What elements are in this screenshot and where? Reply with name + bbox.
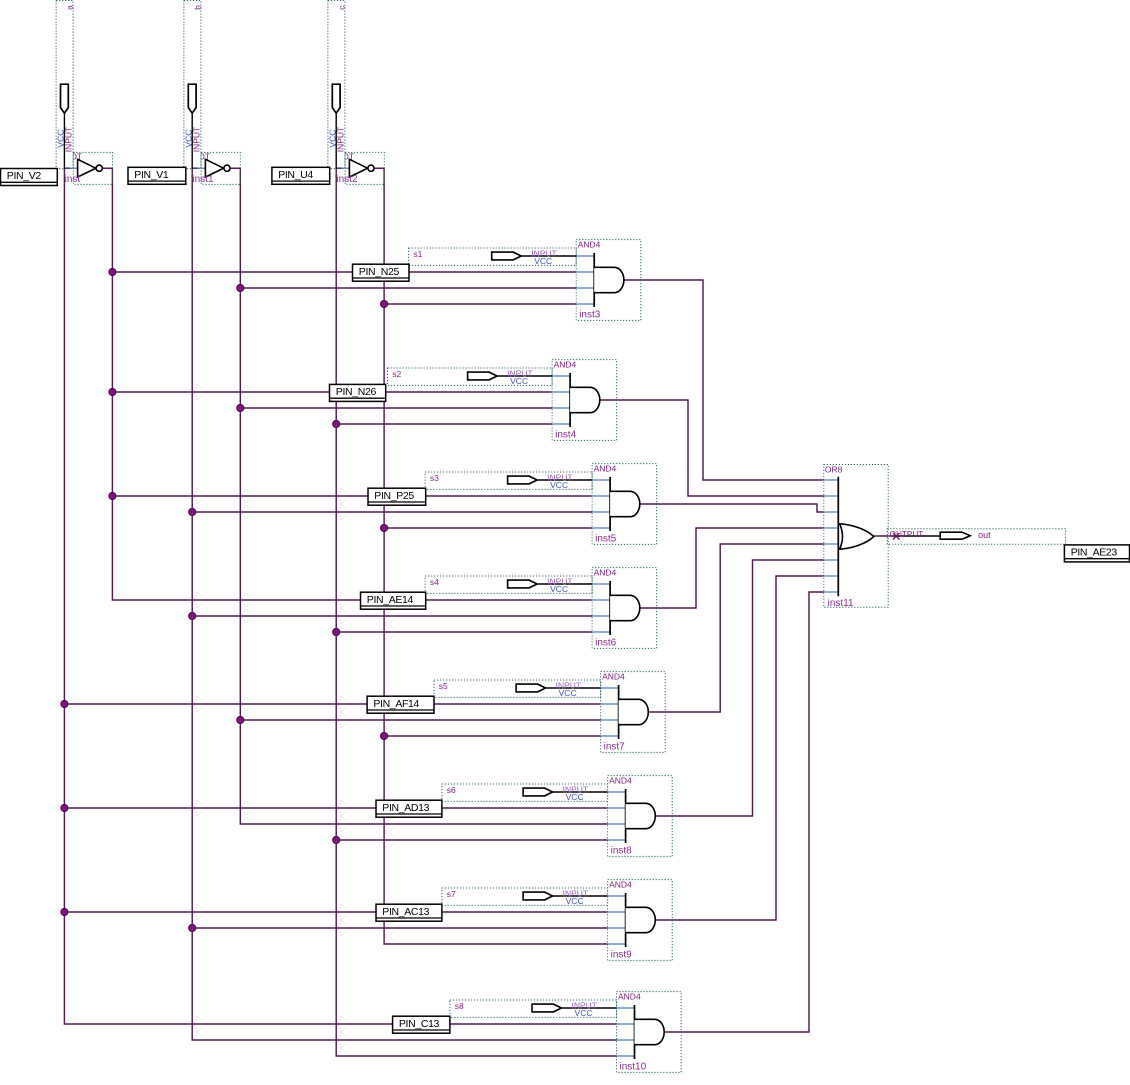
svg-text:s2: s2 bbox=[392, 369, 401, 379]
svg-text:PIN_AF14: PIN_AF14 bbox=[373, 698, 419, 710]
wire row2 y392 bbox=[112, 391, 552, 393]
wire net c vertical bbox=[336, 168, 616, 1056]
svg-text:PIN_C13: PIN_C13 bbox=[399, 1018, 440, 1030]
wire inst9 out to OR8 in7 bbox=[655, 576, 824, 920]
AND gate inst6 (AND4) bbox=[592, 567, 657, 648]
svg-text:VCC: VCC bbox=[566, 792, 584, 802]
svg-text:s7: s7 bbox=[447, 889, 456, 899]
wire row7 y928 bbox=[192, 927, 607, 929]
wire row5 y704 bbox=[64, 703, 600, 705]
svg-text:VCC: VCC bbox=[550, 480, 568, 490]
svg-text:b: b bbox=[192, 5, 202, 10]
svg-text:INPUT: INPUT bbox=[191, 127, 201, 153]
svg-text:AND4: AND4 bbox=[594, 567, 617, 577]
wire row3 y528 bbox=[384, 527, 592, 529]
svg-text:inst5: inst5 bbox=[595, 534, 617, 545]
wire inverter inst output vertical bbox=[102, 168, 592, 600]
wire inst3 out to OR8 in1 bbox=[624, 280, 824, 480]
junction dot (192.2,512) bbox=[189, 509, 196, 516]
wire OR8 output bbox=[874, 535, 894, 537]
pin location label PIN_AC13 bbox=[376, 904, 442, 921]
pin location label PIN_AE14 bbox=[361, 592, 426, 609]
input s3 (VCC) bbox=[425, 472, 592, 490]
svg-text:inst10: inst10 bbox=[620, 1062, 647, 1073]
output pin out (OUTPUT) bbox=[887, 529, 1065, 544]
svg-text:inst9: inst9 bbox=[611, 950, 633, 961]
svg-text:AND4: AND4 bbox=[609, 879, 632, 889]
wire row1 y288 bbox=[240, 287, 576, 289]
svg-text:s1: s1 bbox=[413, 249, 422, 259]
svg-text:VCC: VCC bbox=[575, 1008, 593, 1018]
wire row4 y632 bbox=[336, 631, 592, 633]
svg-text:PIN_AE23: PIN_AE23 bbox=[1071, 547, 1118, 559]
pin location label PIN_N26 bbox=[330, 384, 386, 401]
svg-text:s3: s3 bbox=[430, 473, 439, 483]
wire row3 y512 bbox=[192, 511, 592, 513]
junction dot (336.2,424) bbox=[333, 421, 340, 428]
wire row5 y736 bbox=[384, 735, 600, 737]
inverter inst2 (NOT) bbox=[336, 152, 384, 185]
wire row7 y912 bbox=[64, 911, 607, 913]
svg-text:inst: inst bbox=[65, 174, 81, 185]
svg-text:out: out bbox=[978, 530, 991, 540]
pin location label PIN_AE23 bbox=[1064, 545, 1129, 562]
svg-text:PIN_AC13: PIN_AC13 bbox=[382, 906, 429, 918]
pin location label PIN_V2 bbox=[1, 169, 58, 186]
OR gate inst11 (OR8) bbox=[824, 465, 888, 610]
wire inverter inst2 output vertical bbox=[374, 168, 607, 944]
wire row1 y272 bbox=[112, 271, 576, 273]
svg-text:s4: s4 bbox=[430, 577, 439, 587]
pin location label PIN_U4 bbox=[272, 167, 330, 184]
AND gate inst7 (AND4) bbox=[601, 671, 666, 752]
pin location label PIN_C13 bbox=[393, 1016, 450, 1033]
svg-text:inst7: inst7 bbox=[604, 742, 626, 753]
junction dot (112.4,272) bbox=[109, 269, 116, 276]
inverter inst1 (NOT) bbox=[192, 152, 240, 185]
svg-text:inst8: inst8 bbox=[611, 846, 633, 857]
wire row6 y840 bbox=[336, 839, 607, 841]
junction dot (384.1,736) bbox=[381, 733, 388, 740]
wire row4 y616 bbox=[192, 615, 592, 617]
junction dot (64.4,912) bbox=[61, 909, 68, 916]
junction dot (240.3,720) bbox=[237, 717, 244, 724]
junction dot (112.4,392) bbox=[109, 389, 116, 396]
input s5 (VCC) bbox=[434, 680, 601, 698]
AND gate inst9 (AND4) bbox=[608, 879, 673, 960]
svg-text:VCC: VCC bbox=[534, 256, 552, 266]
svg-text:inst11: inst11 bbox=[828, 598, 854, 609]
svg-text:s6: s6 bbox=[447, 785, 456, 795]
AND gate inst10 (AND4) bbox=[617, 991, 682, 1072]
svg-text:PIN_V2: PIN_V2 bbox=[7, 170, 42, 182]
inverter inst (NOT) bbox=[64, 152, 112, 185]
pin location label PIN_AF14 bbox=[367, 696, 434, 713]
svg-text:VCC: VCC bbox=[550, 584, 568, 594]
svg-text:INPUT: INPUT bbox=[335, 127, 345, 153]
junction dot (240.3,288) bbox=[237, 285, 244, 292]
svg-text:AND4: AND4 bbox=[594, 463, 617, 473]
wire NOT inst input tap bbox=[64, 167, 70, 169]
svg-text:PIN_U4: PIN_U4 bbox=[278, 169, 313, 181]
svg-text:inst3: inst3 bbox=[579, 310, 601, 321]
pin location label PIN_N25 bbox=[353, 264, 410, 281]
svg-text:PIN_AD13: PIN_AD13 bbox=[382, 802, 429, 814]
svg-text:a: a bbox=[65, 5, 75, 10]
wire row1 y304 bbox=[384, 303, 576, 305]
wire inverter inst1 output vertical bbox=[230, 168, 607, 824]
wire inst7 out to OR8 in5 bbox=[648, 544, 824, 712]
wire row2 y408 bbox=[240, 407, 552, 409]
svg-text:OR8: OR8 bbox=[825, 465, 843, 475]
svg-text:AND4: AND4 bbox=[554, 359, 577, 369]
svg-text:INPUT: INPUT bbox=[64, 127, 74, 153]
AND gate inst8 (AND4) bbox=[608, 775, 673, 856]
svg-text:AND4: AND4 bbox=[609, 775, 632, 785]
junction dot (112.4,496) bbox=[109, 493, 116, 500]
svg-text:PIN_N26: PIN_N26 bbox=[336, 386, 377, 398]
input pin a bbox=[56, 1, 75, 169]
svg-text:AND4: AND4 bbox=[578, 239, 601, 249]
junction dot (336.2,632) bbox=[333, 629, 340, 636]
input s4 (VCC) bbox=[425, 576, 592, 594]
pin location label PIN_AD13 bbox=[376, 800, 442, 817]
input s2 (VCC) bbox=[388, 368, 553, 386]
wire inst4 out to OR8 in2 bbox=[600, 400, 824, 496]
svg-text:s8: s8 bbox=[455, 1001, 464, 1011]
svg-text:inst4: inst4 bbox=[555, 430, 577, 441]
pin location label PIN_P25 bbox=[368, 488, 426, 505]
wire NOT inst2 input tap bbox=[336, 167, 342, 169]
svg-text:OUTPUT: OUTPUT bbox=[890, 530, 924, 539]
junction dot (240.3,408) bbox=[237, 405, 244, 412]
wire row3 y496 bbox=[112, 495, 592, 497]
input s6 (VCC) bbox=[442, 784, 608, 802]
junction dot (64.4,808) bbox=[61, 805, 68, 812]
wire row2 y424 bbox=[336, 423, 552, 425]
svg-text:s5: s5 bbox=[439, 681, 448, 691]
wire inst8 out to OR8 in6 bbox=[655, 560, 824, 816]
wire inst6 out to OR8 in4 bbox=[640, 528, 824, 608]
wire row6 y808 bbox=[64, 807, 607, 809]
junction dot (192.2,928) bbox=[189, 925, 196, 932]
input s7 (VCC) bbox=[442, 888, 608, 906]
svg-text:AND4: AND4 bbox=[602, 671, 625, 681]
wire inst5 out to OR8 in3 bbox=[640, 504, 824, 512]
input s1 (VCC) bbox=[409, 248, 577, 266]
junction dot (336.2,840) bbox=[333, 837, 340, 844]
junction dot (192.2,616) bbox=[189, 613, 196, 620]
svg-text:VCC: VCC bbox=[510, 376, 528, 386]
svg-text:PIN_AE14: PIN_AE14 bbox=[367, 594, 414, 606]
svg-text:VCC: VCC bbox=[566, 896, 584, 906]
svg-text:inst2: inst2 bbox=[336, 174, 358, 185]
svg-text:VCC: VCC bbox=[559, 688, 577, 698]
wire NOT inst1 input tap bbox=[192, 167, 198, 169]
junction dot (64.4,704) bbox=[61, 701, 68, 708]
junction dot (384.1,304) bbox=[381, 301, 388, 308]
svg-text:inst6: inst6 bbox=[595, 638, 617, 649]
input pin c bbox=[327, 1, 346, 169]
input pin b bbox=[183, 1, 202, 169]
AND gate inst5 (AND4) bbox=[592, 463, 657, 544]
svg-text:PIN_N25: PIN_N25 bbox=[359, 266, 400, 278]
input s8 (VCC) bbox=[450, 1000, 617, 1018]
wire row5 y720 bbox=[240, 719, 600, 721]
svg-text:PIN_P25: PIN_P25 bbox=[374, 490, 414, 502]
wire net b vertical bbox=[192, 168, 616, 1040]
wire net a vertical bbox=[64, 168, 616, 1024]
svg-text:inst1: inst1 bbox=[192, 174, 214, 185]
svg-text:PIN_V1: PIN_V1 bbox=[134, 169, 169, 181]
AND gate inst3 (AND4) bbox=[576, 239, 641, 320]
svg-text:AND4: AND4 bbox=[618, 991, 641, 1001]
pin location label PIN_V1 bbox=[128, 167, 186, 184]
wire inst10 out to OR8 in8 bbox=[664, 592, 824, 1032]
junction dot (384.1,528) bbox=[381, 525, 388, 532]
AND gate inst4 (AND4) bbox=[552, 359, 617, 440]
